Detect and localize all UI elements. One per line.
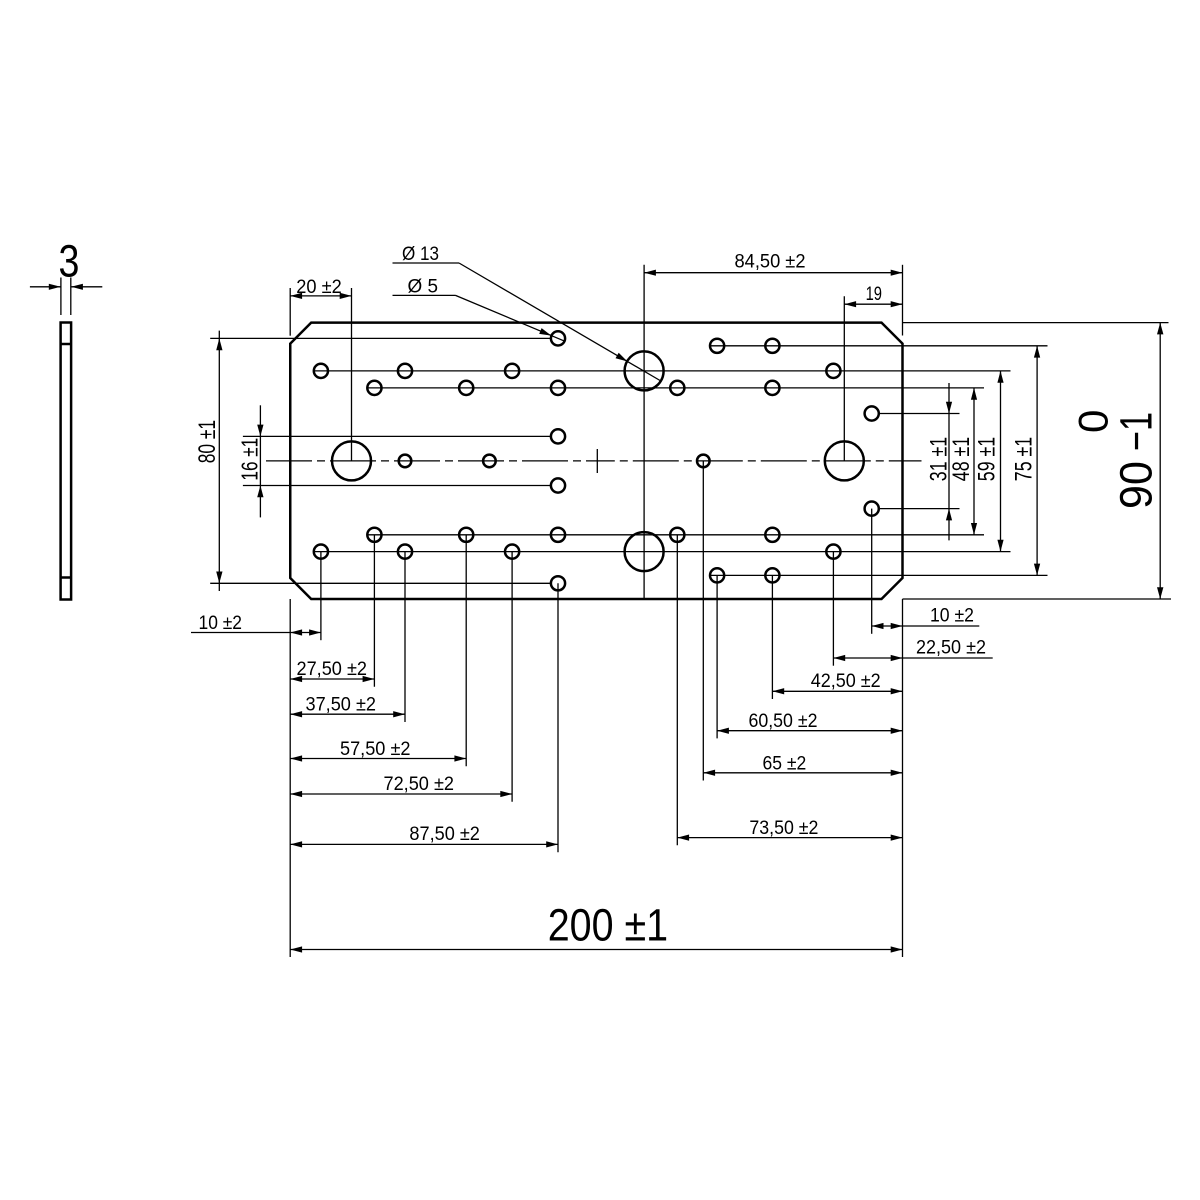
svg-text:42,50 ±2: 42,50 ±2	[811, 671, 881, 692]
big hole D13 bottom-center	[625, 532, 664, 571]
ext line col 72.5 down	[511, 552, 513, 802]
svg-text:75 ±1: 75 ±1	[1011, 437, 1038, 481]
hole D5 center row (37.5)	[399, 455, 412, 468]
ext line col 27.5 down	[373, 535, 375, 687]
row line 75-top	[710, 345, 1047, 347]
hole D5 (10, 31t)	[865, 406, 879, 420]
ext line col 37.5 down	[404, 552, 406, 722]
row line 16-top	[243, 435, 551, 437]
dim 10+-2 right: line+arrows	[872, 625, 980, 627]
svg-text:84,50 ±2: 84,50 ±2	[735, 252, 806, 273]
ext line col 73.5 down	[676, 535, 678, 846]
plate outline (200x90 flat connector plate, chamfered corners)	[290, 323, 902, 599]
row line 80-top	[210, 337, 551, 339]
dim 3: right line+arrow	[71, 286, 102, 288]
dim 48+-1: line+arrows	[973, 388, 975, 535]
ext line col 60.5 down	[716, 575, 718, 738]
svg-text:90: 90	[1111, 461, 1162, 509]
row line 31-bottom	[879, 508, 960, 510]
ext line col 22.5 down	[832, 552, 834, 666]
row line 48-bottom	[367, 534, 984, 536]
hole D5 (42.5, 48t)	[765, 381, 779, 395]
svg-text:Ø 5: Ø 5	[408, 277, 439, 298]
ext line col 84.5 through big holes	[643, 265, 645, 599]
hole D5 (60.5, 75b)	[710, 568, 724, 582]
dim 60,50+-2: line+arrows	[717, 730, 902, 732]
hole D5 (60.5, 75t)	[710, 339, 724, 353]
big hole D13 left	[332, 441, 371, 480]
hole D5 (87.5, 16t)	[551, 429, 565, 443]
ext line plate right edge above (84.5-dim)	[902, 265, 904, 336]
ext line col 42.5 down	[771, 575, 773, 699]
svg-text:27,50 ±2: 27,50 ±2	[297, 659, 368, 680]
hole D5 (37.5, 59b)	[398, 545, 412, 559]
row line 59-bottom	[314, 551, 1011, 553]
big hole D13 right	[825, 441, 864, 480]
ext line col 87.5 down	[557, 583, 559, 852]
svg-text:0: 0	[1070, 410, 1117, 433]
ext line plate left edge above (20-dim)	[289, 288, 291, 336]
hole D5 (87.5, 16b)	[551, 478, 565, 492]
ext line big-hole-left center up (20-dim)	[351, 288, 353, 461]
dim 19: line+arrows	[844, 303, 902, 305]
svg-text:−1: −1	[1111, 412, 1162, 451]
dim 3: ext lines	[60, 278, 62, 316]
dim 75+-1: line+arrows	[1036, 346, 1038, 576]
dim 31+-1: line+arrows	[948, 383, 950, 540]
svg-text:10 ±2: 10 ±2	[930, 605, 974, 626]
hole D5 (10, 31b)	[865, 502, 879, 516]
hole D5 (27.5, 48b)	[367, 528, 381, 542]
ext line col 10-right down	[871, 509, 873, 634]
svg-text:19: 19	[866, 284, 882, 305]
dim 10+-2 left: line+arrows	[191, 632, 321, 634]
hole D5 (37.5, 59t)	[398, 364, 412, 378]
hole D5 (73.5, 48b)	[670, 528, 684, 542]
dim 37,50+-2: line+arrows	[290, 713, 405, 715]
hole D5 (42.5, 48b)	[765, 528, 779, 542]
row line 31-top	[879, 413, 960, 415]
dim 22,50+-2: line+arrows	[833, 657, 992, 659]
dim 3: left line+arrow	[30, 286, 61, 288]
row line 16-bottom	[243, 485, 551, 487]
svg-text:200 ±1: 200 ±1	[548, 899, 668, 950]
dim 87,50+-2: line+arrows	[290, 843, 558, 845]
dim 73,50+-2: line+arrows	[677, 837, 902, 839]
hole D5 (87.5, 48b)	[551, 528, 565, 542]
svg-text:48 ±1: 48 ±1	[948, 437, 975, 481]
top edge extension to 90-dim	[903, 322, 1169, 324]
svg-text:57,50 ±2: 57,50 ±2	[340, 739, 411, 760]
hole D5 (87.5, 80b)	[551, 576, 565, 590]
big hole D13 top-center	[625, 351, 664, 390]
dim 90: line+arrows	[1159, 323, 1161, 599]
dim 20+-2: line+arrows	[290, 295, 351, 297]
svg-text:20 ±2: 20 ±2	[296, 277, 342, 298]
hole D5 (22.5, 59b)	[826, 545, 840, 559]
hole D5 (87.5, 48t)	[551, 381, 565, 395]
hole D5 (57.5, 48b)	[459, 528, 473, 542]
hole D5 (57.5, 48t)	[459, 381, 473, 395]
ext line big-hole-right center up (19-dim)	[843, 296, 845, 461]
hole D5 (87.5, 80t)	[551, 331, 565, 345]
hole D5 (27.5, 48t)	[367, 381, 381, 395]
dim 42,50+-2: line+arrows	[772, 690, 902, 692]
ext line plate right edge below (chain+200)	[902, 599, 904, 957]
svg-text:59 ±1: 59 ±1	[974, 437, 1001, 481]
svg-text:16 ±1: 16 ±1	[237, 438, 263, 481]
dim 65+-2: line+arrows	[703, 772, 902, 774]
svg-text:72,50 ±2: 72,50 ±2	[384, 774, 455, 795]
hole D5 center row (65 right)	[697, 455, 710, 468]
svg-text:73,50 ±2: 73,50 ±2	[749, 818, 818, 839]
dim 80+-1: line+arrows	[218, 331, 220, 591]
svg-text:87,50 ±2: 87,50 ±2	[409, 824, 480, 845]
ext line col 10 down	[320, 552, 322, 641]
svg-text:65 ±2: 65 ±2	[763, 753, 807, 774]
hole D5 (72.5, 59t)	[505, 364, 519, 378]
dim 27,50+-2: line+arrows	[290, 678, 374, 680]
hole D5 (10, 59t)	[314, 364, 328, 378]
horizontal dash-dot centerline (right half)	[597, 460, 921, 462]
dim 72,50+-2: line+arrows	[290, 793, 512, 795]
svg-text:Ø 13: Ø 13	[402, 244, 439, 265]
horizontal dash-dot centerline (left half)	[266, 460, 597, 462]
dim 84,50+-2: line+arrows	[644, 272, 902, 274]
hole D5 (22.5, 59t)	[826, 364, 840, 378]
dim 57,50+-2: line+arrows	[290, 758, 466, 760]
hole D5 (10, 59b)	[314, 545, 328, 559]
row line 80-bottom	[210, 582, 551, 584]
ext line col 65-right down	[702, 461, 704, 781]
ext line col 57.5 down	[465, 535, 467, 767]
dim 16+-1: line+arrows	[259, 405, 261, 517]
dim 90 0/-1: text	[1070, 410, 1162, 509]
hole D5 (72.5, 59b)	[505, 545, 519, 559]
hole D5 (73.5, 48t)	[670, 381, 684, 395]
svg-text:22,50 ±2: 22,50 ±2	[916, 638, 986, 659]
row line 48-top	[367, 387, 984, 389]
hole D5 (42.5, 75t)	[765, 339, 779, 353]
center mark tick at plate center	[596, 449, 598, 473]
svg-text:60,50 ±2: 60,50 ±2	[749, 711, 818, 732]
bottom edge extension to 90-dim	[903, 598, 1172, 600]
svg-text:37,50 ±2: 37,50 ±2	[306, 695, 377, 716]
side view of 3mm plate thickness	[61, 323, 72, 600]
dim 200+-1: line+arrows	[290, 949, 902, 951]
svg-text:80 ±1: 80 ±1	[193, 420, 221, 463]
leader D13: lines+arrow	[393, 262, 460, 264]
row line 75-bottom	[710, 574, 1047, 576]
hole D5 (42.5, 75b)	[765, 568, 779, 582]
svg-text:10 ±2: 10 ±2	[199, 613, 243, 634]
ext line plate left edge below (chain+200)	[289, 599, 291, 957]
leader D5: lines+arrow	[393, 294, 456, 296]
hole D5 center row (65 left)	[483, 455, 496, 468]
dim 59+-1: line+arrows	[1000, 371, 1002, 552]
svg-text:3: 3	[59, 236, 80, 287]
row line 59-top	[314, 370, 1011, 372]
